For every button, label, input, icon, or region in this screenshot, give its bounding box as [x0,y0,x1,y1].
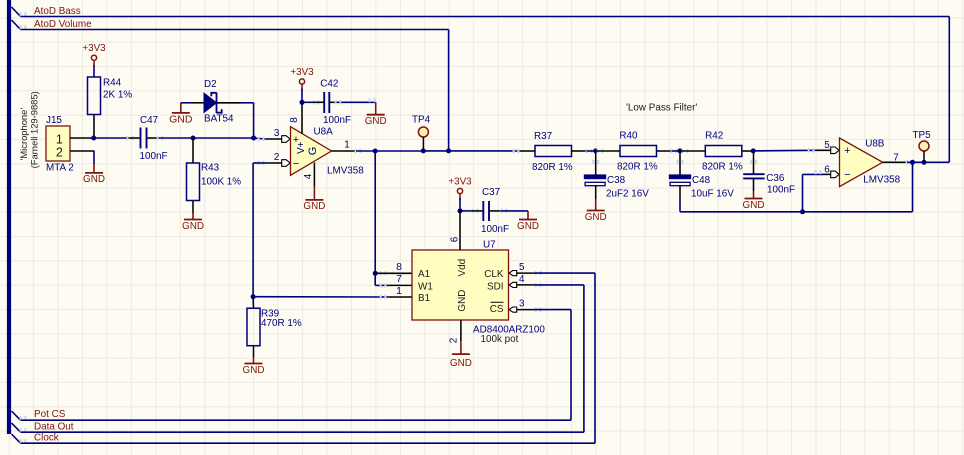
ground GND C37 [517,211,539,232]
pin J15-2 [70,150,95,152]
svg-text:'Microphone': 'Microphone' [18,108,29,161]
wire 3V3-junction [301,89,303,103]
svg-text:3: 3 [519,299,525,310]
pin U7-B1 [388,285,413,297]
wire out-junctions [355,149,376,153]
svg-text:8: 8 [289,117,300,123]
svg-text:R42: R42 [705,130,723,141]
vertical bus [7,0,11,434]
svg-text:Clock: Clock [34,432,59,443]
svg-text:5: 5 [824,140,830,151]
svg-text:C42: C42 [320,78,338,89]
pin U7-A1 [375,261,412,276]
diode D2 [204,79,234,125]
svg-text:100k pot: 100k pot [481,334,519,345]
wire AtoD Volume [20,25,449,151]
svg-text:BAT54: BAT54 [204,114,234,125]
net label Data Out [34,421,74,432]
pin C42 right [329,101,341,103]
svg-text:100nF: 100nF [767,185,795,196]
svg-text:2: 2 [449,338,460,344]
svg-text:G: G [307,147,319,156]
svg-text:GND: GND [517,221,539,232]
ground GND C38 [585,199,607,223]
note Microphone [18,108,29,161]
bus entry AtoD Volume [12,20,21,30]
svg-text:8: 8 [396,261,402,273]
junction D2 [251,136,256,141]
svg-text:100nF: 100nF [481,224,509,235]
wire R43-D2node [193,137,254,139]
wire out-TP4 [375,150,423,152]
svg-text:+3V3: +3V3 [290,67,314,78]
junction AtoD Volume [446,148,451,153]
pin U8B-6 [815,164,840,177]
svg-text:B1: B1 [418,293,431,304]
svg-text:C36: C36 [766,173,785,184]
pin C47 left [129,137,141,139]
bus entry Data Out [12,423,21,432]
svg-text:V+: V+ [296,141,307,154]
capacitor C37 [481,187,509,235]
ground GND U7 [450,341,472,369]
wire D2-node [241,103,254,138]
svg-text:MTA 2: MTA 2 [46,163,74,174]
pin C38 top [592,151,599,175]
pin U7-CLK [509,262,534,276]
svg-text:100nF: 100nF [323,115,351,126]
wire Clock [20,439,595,443]
power +3V3 U7 [448,176,472,200]
wire out-A1 [374,151,376,273]
pin U7-W1 [380,273,412,287]
svg-text:C37: C37 [482,187,500,198]
svg-text:+: + [844,145,850,157]
wire node2-pin3 [254,137,266,141]
capacitor C42 [320,78,351,125]
svg-text:TP5: TP5 [913,130,932,141]
svg-text:GND: GND [169,113,193,125]
wire C42-gnd [335,98,376,105]
wire C48-feedback [680,199,913,212]
svg-text:GND: GND [450,358,472,369]
svg-text:100K 1%: 100K 1% [201,177,241,188]
net label Clock [34,432,59,443]
junction A1 [373,271,378,276]
svg-text:2: 2 [274,152,280,163]
svg-text:R37: R37 [534,131,552,142]
note Low Pass Filter [626,103,697,114]
junction B1/R39 [251,294,256,299]
wire Data Out [20,428,584,432]
pin R39 top [252,297,254,309]
wire pin2 feedback [253,161,266,297]
svg-text:AtoD Volume: AtoD Volume [34,19,92,30]
wire Pot CS [20,416,571,420]
ground GND U8A [303,187,325,213]
op-amp U8B [840,138,901,187]
svg-text:A1: A1 [418,269,431,280]
wire C36-pin5 [753,148,815,152]
svg-text:2uF2 16V: 2uF2 16V [606,189,649,200]
svg-text:10uF 16V: 10uF 16V [691,189,734,200]
svg-text:+3V3: +3V3 [82,43,106,54]
wire C47-R43 [157,136,193,140]
pin C48 bottom [679,186,681,199]
ground GND R43 [182,213,204,232]
wire CS [535,307,571,420]
bus entry Clock [12,434,21,443]
pin C36 bottom [753,178,755,191]
ground GND R39 [243,357,265,376]
svg-text:5: 5 [519,262,525,273]
svg-text:R43: R43 [201,163,220,174]
pin R40 right [657,150,672,152]
wire feedback vert [912,162,914,212]
svg-text:Data Out: Data Out [34,421,74,432]
svg-text:SDI: SDI [487,281,503,292]
wire 3V3-C37node [459,198,461,211]
svg-text:W1: W1 [418,281,433,292]
pin C37 right [489,210,501,212]
ground GND C42 [365,102,387,127]
svg-text:GND: GND [182,221,204,232]
pin U8A-1 [332,140,357,152]
pin U8A-2 [266,152,290,166]
junction C48 [678,148,683,153]
resistor R43 [187,163,242,201]
junction TP5 [922,160,927,165]
capacitor C38 [584,175,649,200]
svg-text:GND: GND [743,200,765,211]
resistor R42 [702,130,743,172]
svg-text:R40: R40 [619,130,638,141]
ground GND D2 [169,103,193,126]
pin C47 right [147,137,159,139]
pin U7-2 [449,320,461,343]
pin U7-SDI [509,274,534,288]
net label AtoD Bass [34,6,81,17]
pin D2 cathode [217,102,242,104]
svg-text:−: − [293,158,299,170]
pin R37 left [520,150,535,152]
connector J15 [46,115,74,174]
note Farnell [29,91,40,168]
svg-text:'Low Pass Filter': 'Low Pass Filter' [626,103,697,114]
junction U8A out [373,149,378,154]
svg-text:1: 1 [344,140,350,151]
ground GND J15 [83,164,105,185]
svg-text:820R 1%: 820R 1% [617,161,658,172]
pin D2 anode [192,102,204,104]
svg-text:2K 1%: 2K 1% [103,90,132,101]
svg-text:CLK: CLK [484,269,504,280]
junction R43 [191,136,196,141]
svg-text:GND: GND [303,201,325,212]
svg-text:7: 7 [396,273,402,285]
svg-text:2: 2 [56,146,63,160]
resistor R37 [532,131,573,173]
wire J15-2 to gnd [93,151,95,164]
pin C42 left [312,101,324,103]
wire volnode-R37 [449,149,520,153]
op-amp U8A [291,127,365,177]
pin U8A-4 [303,163,315,187]
pin U7-6 [449,211,460,250]
svg-text:820R 1%: 820R 1% [702,161,743,172]
svg-text:C48: C48 [692,175,711,186]
svg-text:Vdd: Vdd [457,259,468,277]
pin R44 bottom [93,115,95,139]
wire R37-C38 [586,149,596,153]
resistor R44 [88,77,133,115]
wire SDI [535,283,584,433]
wire out-TP5 [906,160,950,164]
svg-text:100nF: 100nF [140,151,168,162]
testpoint TP5 [913,130,932,163]
svg-text:GND: GND [457,290,468,312]
bus entry Pot CS [12,411,21,420]
svg-text:J15: J15 [46,115,62,126]
power +3V3 U8A [290,67,314,91]
svg-text:GND: GND [243,365,265,376]
junction C37 [458,208,463,213]
bus entry AtoD Bass [12,7,21,17]
pin C38 bottom [595,186,597,199]
svg-text:6: 6 [824,164,830,175]
ground GND C36 [743,191,765,211]
svg-text:820R 1%: 820R 1% [532,162,573,173]
pin C37 left [471,210,483,212]
resistor R40 [617,130,658,172]
junction feedback [800,209,805,214]
wire C37-gnd [501,209,528,213]
wire C37node-C37 [460,209,478,213]
pin R37 right [572,150,587,152]
capacitor C36 [743,173,795,196]
pin U8A-3 [266,128,290,142]
svg-text:GND: GND [365,116,387,127]
svg-text:CS: CS [490,304,504,315]
svg-text:R44: R44 [103,78,122,89]
wire node1 [94,136,134,140]
svg-text:7: 7 [893,152,899,163]
capacitor C47 [140,115,168,162]
pin U8B-5 [815,140,839,154]
ic U7 [412,240,545,346]
svg-text:(Farnell 129-9885): (Farnell 129-9885) [29,91,40,168]
svg-text:470R 1%: 470R 1% [261,318,302,329]
wire CLK [535,271,595,443]
svg-text:4: 4 [519,274,525,285]
pin R39 bottom [253,346,255,357]
wire AtoD Bass [20,12,950,162]
svg-text:1: 1 [396,285,402,297]
pin C48 top [677,151,684,175]
svg-text:6: 6 [449,236,460,242]
svg-text:U8B: U8B [865,138,885,149]
wire gnd-D2 [181,102,192,104]
pin U7-CS [509,299,534,313]
svg-text:U7: U7 [483,240,496,251]
svg-text:U8A: U8A [314,127,334,138]
svg-text:D2: D2 [204,79,217,90]
resistor R39 [247,308,302,346]
svg-text:AtoD Bass: AtoD Bass [34,6,81,17]
wire B1 [253,295,387,299]
svg-text:GND: GND [83,174,105,185]
pin R43 top [192,138,194,163]
svg-text:GND: GND [585,212,607,223]
junction TP4 [421,148,426,153]
pin R40 left [596,149,620,153]
pin R42 left [680,149,705,153]
svg-text:C38: C38 [607,175,626,186]
svg-text:LMV358: LMV358 [863,175,900,186]
svg-text:4: 4 [303,173,314,179]
net label AtoD Volume [34,19,92,30]
svg-text:+3V3: +3V3 [448,176,472,187]
svg-text:Pot CS: Pot CS [34,409,66,420]
pin U8B-7 [883,152,907,163]
wire junction-C42 [302,100,319,104]
wire TP4-volnode [423,150,448,152]
junction U8A-8 [300,100,305,105]
junction C36 [751,148,756,153]
net label Pot CS [34,409,66,420]
junction feedback top [910,160,915,165]
svg-text:3: 3 [274,128,280,139]
wire A1-W1 [375,273,387,285]
junction C38 [593,148,598,153]
power +3V3 R44 [82,43,106,67]
pin R43 bottom [192,201,194,214]
wire pin6 path [803,174,824,211]
svg-text:1: 1 [56,132,63,146]
pin J15-1 [70,137,95,139]
svg-text:LMV358: LMV358 [327,166,364,177]
svg-text:−: − [844,169,850,181]
wire R40-C48 [671,149,680,153]
testpoint TP4 [412,115,431,151]
svg-text:TP4: TP4 [412,115,431,126]
pin C36 top [750,151,757,174]
svg-text:C47: C47 [140,115,158,126]
pin R42 right [742,150,753,152]
pin U8A-8 [289,102,302,133]
capacitor C48 [669,175,734,200]
wire 3V3-R44 [93,65,95,77]
junction J15/R44 [91,136,96,141]
